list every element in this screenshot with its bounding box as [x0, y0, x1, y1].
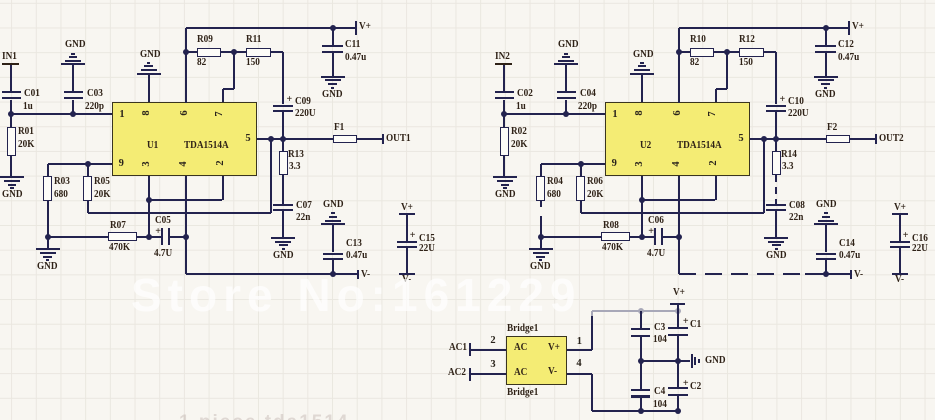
resistor R10	[690, 48, 714, 57]
node C03 junction	[563, 111, 569, 117]
capacitor C10	[766, 105, 786, 107]
node R03/R07 junction	[538, 234, 544, 240]
capacitor C11	[322, 45, 343, 47]
port OUT2	[875, 134, 877, 144]
pin 1 label	[608, 111, 622, 119]
pin 3 label	[636, 157, 644, 171]
wire R09 to R11	[714, 51, 739, 53]
label C10	[788, 98, 804, 106]
ground under R01	[493, 176, 517, 178]
wire C01 to input node	[10, 100, 12, 114]
capacitor C14	[816, 253, 836, 255]
ground above C03	[554, 63, 578, 65]
wire R13 to C07	[282, 175, 284, 203]
wire C09 to pin5 net	[775, 112, 777, 139]
designator U1	[147, 142, 158, 150]
wire IN2 to C02	[503, 65, 505, 92]
ground under R01	[0, 176, 24, 178]
plus sign C05	[648, 228, 654, 236]
ground under R03	[529, 248, 553, 250]
plus sign C09	[287, 96, 293, 104]
pin 5 label	[241, 135, 255, 143]
bridge pin name AC top	[514, 344, 527, 352]
ground under C11	[321, 76, 345, 78]
value 22U	[912, 245, 928, 253]
value 22U	[419, 245, 435, 253]
pin 6 label	[181, 106, 189, 120]
fuse F2	[826, 135, 850, 144]
node pin3/pin2 junction	[146, 197, 152, 203]
wire C2 to bottom rail	[677, 396, 679, 411]
node C1 mid junction	[675, 358, 681, 364]
wire to R09	[679, 51, 690, 53]
node R09/R11 junction	[724, 49, 730, 55]
value 4.7U	[154, 250, 172, 258]
label C11	[345, 41, 360, 49]
wire pin 2 drop	[222, 176, 224, 200]
wire pin 9 row	[541, 163, 605, 165]
wire C09 to pin5 net	[282, 112, 284, 139]
resistor R03	[47, 164, 49, 176]
port OUT1	[382, 134, 384, 144]
wire pin 7 jog	[715, 89, 717, 103]
plus sign C1	[683, 318, 689, 326]
capacitor C16	[890, 241, 910, 243]
power port V+ over C15	[894, 204, 906, 212]
pin 7 label	[216, 107, 224, 121]
bridge rectifier Bridge1	[506, 336, 567, 385]
label C12	[838, 41, 854, 49]
wire feedback riser	[270, 139, 272, 213]
label C13	[346, 240, 362, 248]
wire C15 to V-	[899, 248, 901, 273]
designator U2	[640, 142, 651, 150]
watermark bottom edge	[179, 412, 349, 420]
pin 1 label bridge	[577, 338, 582, 346]
value 680	[54, 191, 68, 199]
wire gnd to pin 8	[148, 74, 150, 102]
value 220p	[578, 103, 597, 111]
wire pin 4 column	[185, 176, 187, 274]
capacitor C07	[273, 204, 293, 206]
wire AC2 to bridge pin 3	[470, 373, 507, 375]
wire to R07	[541, 236, 601, 238]
wire gnd stem	[47, 237, 49, 249]
value 20K	[587, 191, 603, 199]
power port V- under C15	[892, 273, 907, 275]
wire bridge pin 1 riser	[567, 349, 592, 351]
ground above C03	[61, 63, 85, 65]
wire rail to C3	[640, 311, 642, 328]
wire R13 to C07 dashed by watermark	[775, 175, 777, 203]
pin 5 label	[734, 135, 748, 143]
value 20K	[18, 141, 34, 149]
node C13 junction	[330, 271, 336, 277]
wire C13 to V- rail	[332, 260, 334, 274]
capacitor C05	[161, 228, 163, 245]
node pin3/C05 junction	[146, 234, 152, 240]
node C13 junction	[823, 271, 829, 277]
resistor R06	[580, 164, 582, 176]
node R05 top junction	[578, 161, 584, 167]
wire pin 5 output	[257, 138, 333, 140]
node pin6/R09 junction	[183, 49, 189, 55]
plus sign C2	[683, 380, 689, 388]
power port V+ top	[355, 21, 357, 35]
ground bridge	[691, 354, 693, 369]
wire V- rail dashed by watermark	[679, 273, 805, 275]
ground under C07	[764, 237, 788, 239]
pin 4 label bridge	[576, 360, 581, 368]
resistor R05	[87, 164, 89, 176]
resistor R14	[772, 151, 782, 176]
wire rail to C11	[332, 28, 334, 45]
power port V+ over C15	[401, 204, 413, 212]
node R05 top junction	[85, 161, 91, 167]
port AC1	[449, 344, 467, 352]
label R08	[603, 222, 619, 230]
wire C13 to V- rail	[825, 260, 827, 274]
resistor R04	[540, 164, 542, 176]
value 22n	[296, 214, 310, 222]
wire pin 2 drop	[715, 176, 717, 200]
node C09/R13 junction	[280, 136, 286, 142]
capacitor C04	[557, 91, 576, 93]
plus sign C09	[780, 96, 786, 104]
resistor R07	[108, 232, 137, 241]
wire C03 to input row	[565, 100, 567, 114]
label R09	[197, 36, 213, 44]
value 0.47u c13	[346, 252, 367, 260]
plus sign C05	[155, 228, 161, 236]
op-amp U2 TDA1514A	[605, 102, 751, 176]
wire C11 to ground	[332, 53, 334, 76]
capacitor C3	[631, 328, 650, 330]
wire AC1 to bridge pin 2	[470, 349, 507, 351]
capacitor C13	[323, 253, 343, 255]
wire R01 to ground	[503, 156, 505, 177]
node feedback junction	[268, 136, 274, 142]
label C07	[296, 202, 312, 210]
label C01	[24, 90, 40, 98]
pin 9 label	[607, 160, 621, 168]
wire mid rail to C4	[640, 361, 642, 389]
node R03/R07 junction	[45, 234, 51, 240]
capacitor C2	[668, 387, 688, 389]
value 470K	[602, 244, 623, 252]
value 1u	[516, 103, 526, 111]
wire pin 6 riser	[678, 28, 680, 103]
label C3	[654, 324, 665, 332]
value 4.7U	[647, 250, 665, 258]
label R11	[246, 36, 261, 44]
wire V- rail	[186, 273, 358, 275]
plus sign C15	[410, 232, 416, 240]
wire to R09	[186, 51, 197, 53]
wire feedback row	[581, 212, 765, 214]
node C05/pin4 junction	[676, 234, 682, 240]
wire C15 to V-	[406, 248, 408, 273]
wire input row to pin 1	[11, 113, 112, 115]
wire pin2-pin3 row	[149, 199, 223, 201]
ground above C13	[321, 223, 345, 225]
wire C11 to ground	[825, 53, 827, 76]
label R03	[54, 178, 70, 186]
label C4	[654, 388, 665, 396]
wire R03 to gnd node	[47, 201, 49, 237]
wire riser to C09	[775, 52, 777, 104]
resistor R11	[246, 48, 271, 57]
wire feedback row	[88, 212, 272, 214]
ground above C13	[814, 223, 838, 225]
label C05	[155, 217, 171, 225]
label R10	[690, 36, 706, 44]
wire R11 to C09 riser	[764, 51, 777, 53]
value 220U	[788, 110, 809, 118]
pin 6 label	[674, 106, 682, 120]
pin 8 label	[636, 106, 644, 120]
watermark store number	[131, 268, 582, 322]
wire riser to C09	[282, 52, 284, 104]
port IN2	[495, 53, 510, 61]
label R07	[110, 222, 126, 230]
capacitor C08	[766, 204, 786, 206]
wire gnd to C03	[565, 65, 567, 91]
node C3 mid junction	[638, 358, 644, 364]
node C11 junction	[823, 25, 829, 31]
wire C3 to mid rail	[640, 337, 642, 361]
capacitor C1	[668, 327, 688, 329]
power port V+ bridge	[673, 289, 685, 297]
value 220U	[295, 110, 316, 118]
node C1 top junction	[675, 308, 681, 314]
port IN1	[2, 53, 17, 61]
pin 2 label bridge	[490, 337, 495, 345]
label C09	[295, 98, 311, 106]
ground above pin 8	[630, 73, 654, 75]
label C16	[912, 235, 928, 243]
wire bridge pin 4 drop	[567, 373, 592, 375]
wire R05 to feedback	[580, 201, 582, 213]
wire V+ to C15	[899, 215, 901, 242]
node R09/R11 junction	[231, 49, 237, 55]
label F1	[334, 124, 344, 132]
label C06	[648, 217, 664, 225]
pin 8 label	[143, 106, 151, 120]
node C3 top junction	[638, 308, 644, 314]
resistor R12	[739, 48, 764, 57]
capacitor C12	[815, 45, 836, 47]
wire R07 to C05	[630, 236, 642, 238]
value 82	[197, 59, 206, 67]
plus sign C15	[903, 232, 909, 240]
resistor R02	[503, 114, 505, 127]
node C09/R13 junction	[773, 136, 779, 142]
bridge pin name V+	[548, 344, 560, 352]
node feedback junction	[761, 136, 767, 142]
value 680	[547, 191, 561, 199]
wire F1 to OUT	[357, 138, 383, 140]
power port V- rail end	[850, 270, 852, 280]
value 220p	[85, 103, 104, 111]
wire C05 to pin4 column	[170, 236, 186, 238]
wire pin 4 column	[678, 176, 680, 274]
value 104 C3	[653, 336, 667, 344]
wire to C05 plate	[149, 236, 161, 238]
pin 1 label	[115, 111, 129, 119]
resistor R13	[279, 151, 289, 176]
label F2	[827, 124, 837, 132]
node input junction	[8, 111, 14, 117]
node C03 junction	[70, 111, 76, 117]
wire R05 to feedback	[87, 201, 89, 213]
wire R03 to gnd node with watermark gap	[540, 201, 542, 207]
pin 4 label	[673, 157, 681, 171]
wire bridge bottom rail	[592, 410, 678, 412]
part name TDA1514A	[677, 142, 722, 150]
value 22n	[789, 214, 803, 222]
value 470K	[109, 244, 130, 252]
label R06	[587, 178, 603, 186]
wire pin 5 output	[750, 138, 826, 140]
op-amp U1 TDA1514A	[112, 102, 258, 176]
wire bridge V+ rail greyed by watermark	[592, 310, 678, 312]
pin 2 label	[217, 156, 225, 170]
label R05	[94, 178, 110, 186]
power port V- under C15	[399, 273, 414, 275]
wire C07 to ground	[775, 211, 777, 237]
label C02	[517, 90, 533, 98]
label R13	[288, 151, 304, 159]
capacitor C09	[273, 105, 293, 107]
wire C07 to ground	[282, 211, 284, 237]
pin 9 label	[114, 160, 128, 168]
part name TDA1514A	[184, 142, 229, 150]
value 0.47u	[345, 54, 366, 62]
ground under C11	[814, 76, 838, 78]
pin 2 label	[710, 156, 718, 170]
node pin3/C05 junction	[639, 234, 645, 240]
wire gnd to pin 8	[641, 74, 643, 102]
wire C05 to pin4 column	[663, 236, 679, 238]
value 82	[690, 59, 699, 67]
capacitor C15	[397, 241, 417, 243]
label R02	[511, 128, 527, 136]
value 0.47u	[838, 54, 859, 62]
bridge pin name V-	[548, 368, 557, 376]
capacitor C4	[631, 389, 650, 391]
node C05/pin4 junction	[183, 234, 189, 240]
wire R07 to C05	[137, 236, 149, 238]
wire pin2-pin3 row	[642, 199, 716, 201]
designator Bridge1 bottom	[507, 389, 538, 397]
wire C01 to input node	[503, 100, 505, 114]
value 1u	[23, 103, 33, 111]
label R12	[739, 36, 755, 44]
capacitor C03	[64, 91, 83, 93]
value 150	[246, 59, 260, 67]
ground under C07	[271, 237, 295, 239]
wire C03 to input row	[72, 100, 74, 114]
wire gnd to C03	[72, 65, 74, 91]
wire R01 to ground	[10, 156, 12, 177]
wire pin5 to R13	[775, 139, 777, 151]
wire pin 6 riser	[185, 28, 187, 103]
pin 4 label	[180, 157, 188, 171]
wire input row to pin 1	[504, 113, 605, 115]
resistor R01	[10, 114, 12, 127]
wire gnd to C13	[332, 225, 334, 253]
wire to R07	[48, 236, 108, 238]
wire C1 to mid rail	[677, 336, 679, 361]
label C2	[690, 383, 701, 391]
bridge pin name AC bottom	[514, 369, 527, 377]
label C04	[580, 90, 596, 98]
wire pin5 to R13	[282, 139, 284, 151]
resistor R09	[197, 48, 221, 57]
label C1	[690, 321, 701, 329]
pin 3 label	[143, 157, 151, 171]
capacitor C02	[495, 91, 514, 93]
value 3.3	[289, 163, 301, 171]
label R04	[547, 178, 563, 186]
wire mid rail to C2	[677, 361, 679, 387]
wire gnd to C13	[825, 225, 827, 253]
power port V- rail end	[357, 270, 359, 280]
wire feedback riser	[763, 139, 765, 213]
wire pin 3 column	[641, 176, 643, 237]
wire pin 3 column	[148, 176, 150, 237]
pin 3 label bridge	[490, 361, 495, 369]
wire IN1 to C01	[10, 65, 12, 92]
node C2 bottom junction	[675, 408, 681, 414]
node input junction	[501, 111, 507, 117]
wire F1 to OUT	[850, 138, 876, 140]
label C03	[87, 90, 103, 98]
label R14	[781, 151, 797, 159]
value 20K	[511, 141, 527, 149]
wire gnd stem	[540, 237, 542, 249]
wire V+ top rail	[186, 27, 356, 29]
wire rail to C11	[825, 28, 827, 45]
value 3.3	[782, 163, 794, 171]
wire C4 to bottom rail	[640, 398, 642, 411]
value 20K	[94, 191, 110, 199]
port AC2	[448, 369, 466, 377]
value 104 C4	[653, 401, 667, 409]
value 0.47u c13	[839, 252, 860, 260]
wire R11 to C09 riser	[271, 51, 284, 53]
wire V+ top rail	[679, 27, 849, 29]
resistor R08	[601, 232, 630, 241]
node C4 bottom junction	[638, 408, 644, 414]
wire rail to C1	[677, 311, 679, 327]
pin 7 label	[709, 107, 717, 121]
wire pin 9 row	[48, 163, 112, 165]
power port V+ top	[848, 21, 850, 35]
wire to C05 plate	[642, 236, 654, 238]
capacitor C06	[654, 228, 656, 245]
capacitor C01	[2, 91, 21, 93]
node pin6/R09 junction	[676, 49, 682, 55]
node C11 junction	[330, 25, 336, 31]
wire bridge mid rail	[641, 360, 690, 362]
fuse F1	[333, 135, 357, 144]
designator Bridge1 top	[507, 325, 538, 333]
label C14	[839, 240, 855, 248]
wire pin 7 jog	[222, 89, 224, 103]
value 150	[739, 59, 753, 67]
